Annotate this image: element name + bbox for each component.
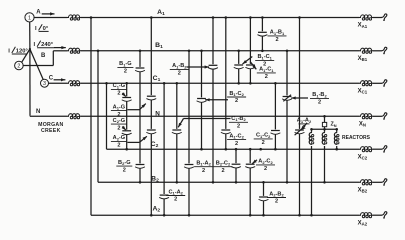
svg-text:2: 2 bbox=[275, 199, 278, 205]
svg-text:REACTORS: REACTORS bbox=[342, 135, 371, 141]
svg-text:2: 2 bbox=[117, 143, 120, 149]
svg-text:1: 1 bbox=[28, 15, 31, 21]
svg-text:B1-B2: B1-B2 bbox=[312, 92, 327, 98]
svg-text:XB2: XB2 bbox=[358, 188, 368, 194]
svg-text:B1-C1: B1-C1 bbox=[257, 54, 272, 60]
svg-text:N: N bbox=[36, 109, 40, 115]
svg-text:ZN: ZN bbox=[330, 122, 336, 128]
svg-text:A1-B1: A1-B1 bbox=[270, 30, 285, 36]
svg-text:A1-C2: A1-C2 bbox=[229, 133, 244, 139]
svg-text:XB1: XB1 bbox=[358, 56, 368, 62]
svg-text:2: 2 bbox=[124, 69, 127, 75]
svg-text:XC2: XC2 bbox=[358, 154, 368, 160]
svg-text:B2-G: B2-G bbox=[118, 160, 131, 166]
svg-text:A1-B2: A1-B2 bbox=[172, 63, 187, 69]
svg-text:2: 2 bbox=[117, 91, 120, 97]
svg-text:B1-A2: B1-A2 bbox=[196, 161, 211, 167]
svg-text:A1-G: A1-G bbox=[113, 104, 126, 110]
svg-text:B1-G: B1-G bbox=[119, 61, 131, 67]
svg-text:2: 2 bbox=[178, 71, 181, 77]
svg-text:2: 2 bbox=[318, 100, 321, 106]
svg-text:B2-C2: B2-C2 bbox=[216, 161, 231, 167]
svg-text:2: 2 bbox=[264, 166, 267, 172]
svg-text:A: A bbox=[36, 10, 41, 16]
svg-text:C1-G: C1-G bbox=[113, 83, 126, 89]
svg-text:2: 2 bbox=[123, 167, 126, 173]
svg-text:A1-C1: A1-C1 bbox=[259, 67, 274, 73]
svg-text:C1-A2: C1-A2 bbox=[168, 189, 183, 195]
svg-text:2: 2 bbox=[275, 37, 278, 43]
svg-text:CREEK: CREEK bbox=[41, 128, 61, 134]
svg-text:2: 2 bbox=[235, 98, 238, 104]
svg-text:C: C bbox=[49, 75, 54, 81]
svg-text:2: 2 bbox=[117, 112, 120, 118]
svg-text:C1-C2: C1-C2 bbox=[256, 133, 271, 139]
svg-text:N: N bbox=[155, 111, 160, 118]
svg-text:XA2: XA2 bbox=[358, 220, 368, 226]
svg-text:XA1: XA1 bbox=[358, 23, 368, 29]
svg-text:A2-G: A2-G bbox=[113, 135, 126, 141]
svg-text:C1-B2: C1-B2 bbox=[231, 116, 246, 122]
svg-text:2: 2 bbox=[174, 197, 177, 203]
svg-text:3: 3 bbox=[43, 81, 46, 87]
svg-text:B1-C2: B1-C2 bbox=[229, 91, 244, 97]
svg-text:B: B bbox=[41, 53, 46, 59]
svg-text:2: 2 bbox=[262, 140, 265, 146]
svg-text:A2-B2: A2-B2 bbox=[269, 191, 284, 197]
svg-text:MORGAN: MORGAN bbox=[38, 122, 63, 128]
svg-text:A1-A2: A1-A2 bbox=[297, 118, 312, 124]
svg-text:2: 2 bbox=[237, 124, 240, 130]
svg-text:2: 2 bbox=[17, 64, 20, 70]
svg-text:2: 2 bbox=[117, 125, 120, 131]
svg-text:XN: XN bbox=[359, 122, 366, 128]
svg-text:C2-G: C2-G bbox=[113, 118, 126, 124]
svg-text:XC1: XC1 bbox=[358, 89, 368, 95]
svg-text:2: 2 bbox=[202, 168, 205, 174]
svg-text:2: 2 bbox=[235, 141, 238, 147]
svg-text:2: 2 bbox=[221, 168, 224, 174]
svg-text:A2-C2: A2-C2 bbox=[258, 159, 273, 165]
svg-text:2: 2 bbox=[265, 74, 268, 80]
